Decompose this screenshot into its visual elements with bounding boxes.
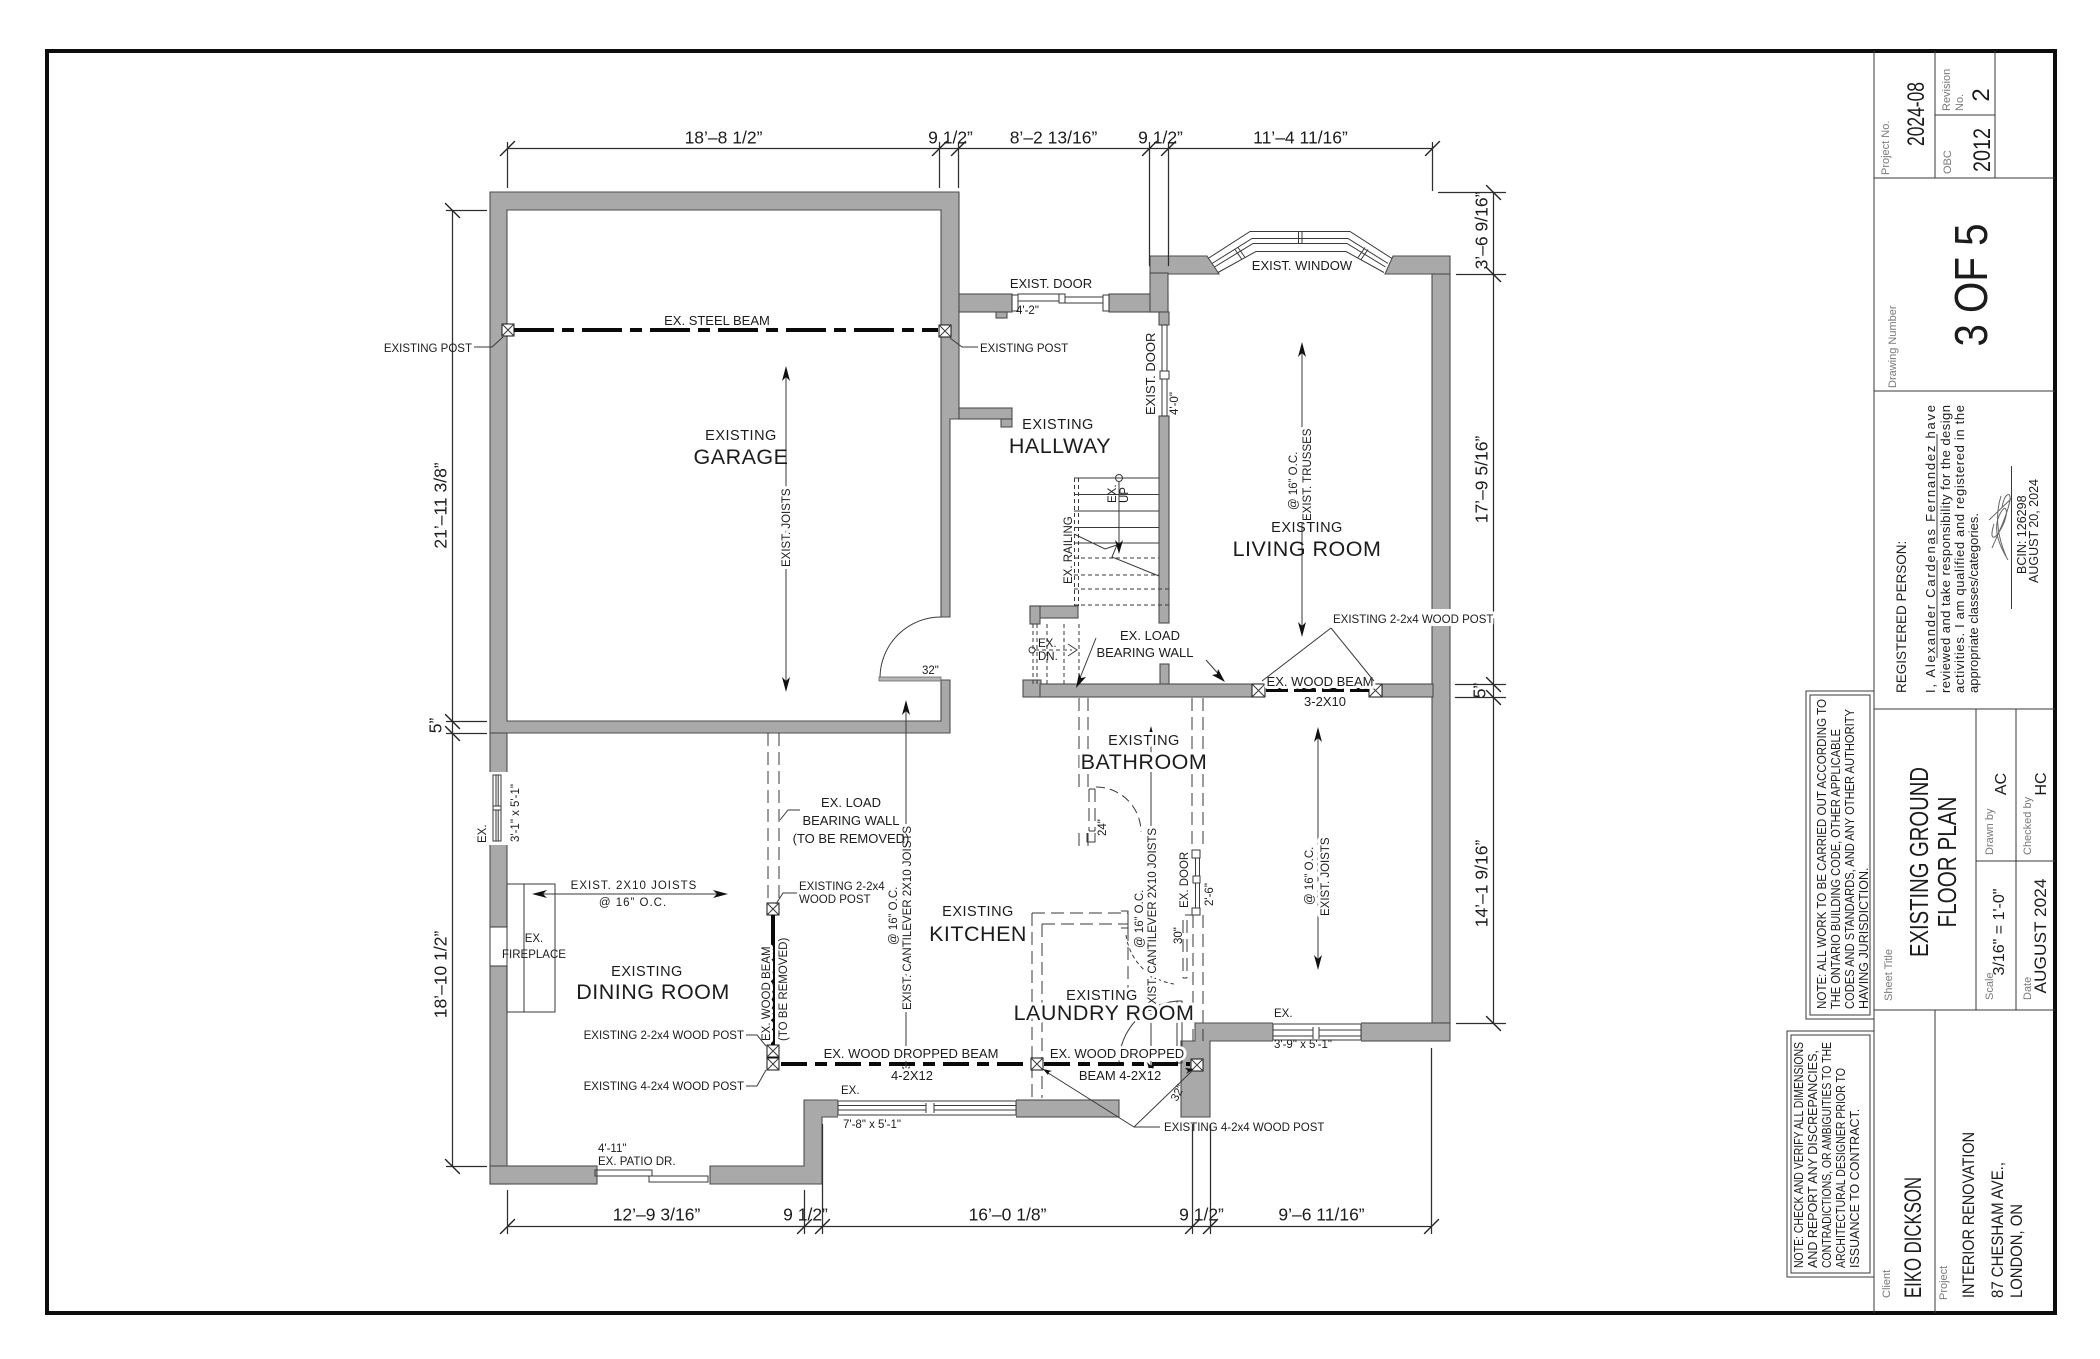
title block row line 4	[1874, 1009, 2055, 1011]
title block row line 1	[1874, 177, 2055, 179]
left dim ticks	[446, 204, 460, 1174]
DASHED	[768, 698, 1203, 1098]
svg-text:AC: AC	[1993, 773, 2010, 795]
note box 2 check and verify	[1787, 1031, 1874, 1277]
svg-text:EX. WOOD DROPPED: EX. WOOD DROPPED	[1050, 1046, 1184, 1061]
bay window line2	[1212, 239, 1388, 264]
svg-text:@ 16” O.C.: @ 16” O.C.	[888, 887, 900, 945]
svg-text:9 1/2”: 9 1/2”	[1138, 128, 1183, 148]
svg-text:EX. WOOD DROPPED BEAM: EX. WOOD DROPPED BEAM	[824, 1046, 999, 1061]
svg-text:7'-8" x 5'-1": 7'-8" x 5'-1"	[843, 1119, 901, 1131]
existing 4-2x4 wood post (laundry beam left)	[1031, 1058, 1043, 1070]
svg-text:AUGUST 20, 2024: AUGUST 20, 2024	[2027, 479, 2041, 583]
svg-text:11’–4 11/16”: 11’–4 11/16”	[1253, 128, 1348, 148]
window kitchen south 7'-8" x 5'-1"	[838, 1098, 1016, 1119]
DIMENSIONS	[426, 128, 1506, 1234]
svg-text:LIVING ROOM: LIVING ROOM	[1233, 537, 1382, 561]
svg-text:EXISTING 4-2x4 WOOD POST: EXISTING 4-2x4 WOOD POST	[584, 1081, 744, 1093]
right dim extension lines	[1439, 193, 1506, 1024]
svg-text:CODES AND STANDARDS, AND ANY O: CODES AND STANDARDS, AND ANY OTHER AUTHO…	[1843, 708, 1857, 1009]
wall family south right	[1361, 1023, 1450, 1041]
title block left edge	[1873, 51, 1875, 1313]
svg-text:NOTE: ALL WORK TO BE CARRIED O: NOTE: ALL WORK TO BE CARRIED OUT ACCORDI…	[1815, 699, 1829, 1009]
title block divider project no	[1934, 51, 1936, 178]
EX DN arrow dashed	[1029, 644, 1077, 656]
svg-text:@ 16” O.C.: @ 16” O.C.	[1134, 890, 1146, 948]
svg-text:ISSUANCE TO CONTRACT.: ISSUANCE TO CONTRACT.	[1848, 1109, 1862, 1268]
svg-text:EXISTING POST: EXISTING POST	[980, 343, 1068, 355]
TITLEBLOCK	[1787, 51, 2055, 1313]
svg-text:3'-1" x 5'-1": 3'-1" x 5'-1"	[510, 784, 522, 842]
svg-text:18’–10 1/2”: 18’–10 1/2”	[431, 931, 451, 1019]
bottom dim extension lines	[508, 1049, 1432, 1234]
svg-text:OBC: OBC	[1942, 150, 1954, 174]
svg-text:LONDON, ON: LONDON, ON	[2007, 1204, 2026, 1298]
bay window outer line	[1208, 232, 1392, 259]
svg-text:Drawing Number: Drawing Number	[1887, 305, 1899, 388]
svg-text:3'-9" x 5'-1": 3'-9" x 5'-1"	[1274, 1039, 1332, 1051]
svg-text:@ 16” O.C.: @ 16” O.C.	[1288, 452, 1300, 510]
fireplace box	[507, 884, 555, 1012]
svg-text:EXISTING 2-2x4 WOOD POST: EXISTING 2-2x4 WOOD POST	[584, 1030, 744, 1042]
svg-text:EXIST. CANTILEVER 2X10 JOIS: EXIST. CANTILEVER 2X10 JOISTS	[1147, 828, 1159, 1012]
bathroom-hall door 2'-6"	[1192, 850, 1200, 915]
svg-text:appropriate classes/categories: appropriate classes/categories.	[1966, 513, 1981, 693]
existing 2-2x4 wood post (top of removed beam)	[767, 903, 779, 915]
svg-text:3 OF 5: 3 OF 5	[1945, 224, 1997, 347]
svg-text:EXISTING: EXISTING	[942, 904, 1014, 920]
bay window line3	[1215, 244, 1386, 268]
svg-text:9 1/2”: 9 1/2”	[1179, 1205, 1224, 1225]
wall stair DN stub	[1030, 606, 1078, 618]
wall hallway east low	[1160, 664, 1169, 687]
svg-text:(TO BE REMOVED): (TO BE REMOVED)	[793, 831, 910, 846]
svg-text:14’–1 9/16”: 14’–1 9/16”	[1472, 840, 1492, 928]
bathroom west dashed wall upper	[1078, 698, 1080, 787]
svg-text:EX. PATIO DR.: EX. PATIO DR.	[598, 1156, 676, 1168]
svg-text:Drawn by: Drawn by	[1984, 808, 1996, 855]
STAIRS	[1029, 475, 1169, 685]
svg-text:activities. I am qualified and: activities. I am qualified and registere…	[1952, 405, 1967, 693]
right dim ticks	[1487, 186, 1501, 1031]
svg-text:EXIST. JOISTS: EXIST. JOISTS	[781, 488, 793, 567]
title block row line 2	[1874, 390, 2055, 392]
svg-text:HC: HC	[2033, 772, 2050, 795]
svg-text:EX. STEEL BEAM: EX. STEEL BEAM	[664, 313, 770, 328]
svg-text:3’–6 9/16”: 3’–6 9/16”	[1472, 191, 1492, 269]
bathroom east dashed wall	[1191, 698, 1193, 850]
laundry opening trim	[1121, 911, 1128, 928]
svg-text:DINING ROOM: DINING ROOM	[576, 980, 730, 1004]
svg-text:LAUNDRY ROOM: LAUNDRY ROOM	[1014, 1001, 1195, 1025]
wall living-family east	[1432, 274, 1450, 1023]
svg-text:9 1/2”: 9 1/2”	[928, 128, 973, 148]
svg-text:Sheet Title: Sheet Title	[1883, 949, 1895, 1001]
top dim ticks	[501, 142, 1440, 156]
svg-text:EXISTING: EXISTING	[1022, 417, 1094, 433]
svg-text:Project: Project	[1938, 1266, 1950, 1300]
svg-text:3-2X10: 3-2X10	[1304, 694, 1346, 709]
svg-text:EXISTING: EXISTING	[1271, 520, 1343, 536]
svg-text:EXIST. DOOR: EXIST. DOOR	[1143, 333, 1158, 415]
svg-text:WOOD POST: WOOD POST	[799, 894, 871, 906]
left dimension line	[452, 211, 454, 1167]
family joists arrow	[1314, 727, 1322, 970]
svg-text:16’–0 1/8”: 16’–0 1/8”	[969, 1205, 1047, 1225]
ex wood dropped beam 4-2x12 (laundry)	[1044, 1062, 1190, 1066]
hallway-living door 4'-0"	[1160, 325, 1169, 416]
svg-text:EX.: EX.	[525, 933, 544, 945]
svg-text:4'-2": 4'-2"	[1016, 305, 1039, 317]
wall living top east segment with bay cut	[1385, 256, 1450, 274]
svg-text:INTERIOR RENOVATION: INTERIOR RENOVATION	[1959, 1132, 1978, 1298]
svg-text:CONTRADICTIONS, OR AMBIGUITIES: CONTRADICTIONS, OR AMBIGUITIES TO THE	[1820, 1042, 1834, 1268]
svg-text:4'-0": 4'-0"	[1169, 392, 1181, 415]
svg-text:30": 30"	[1173, 927, 1185, 944]
window family south 3'-9" x 5'-1"	[1273, 1021, 1361, 1043]
wall stair DN stub cap	[1030, 606, 1040, 624]
BEAMS	[502, 324, 1382, 1071]
wall middle divider right	[1382, 684, 1433, 697]
svg-text:EXISTING: EXISTING	[705, 428, 777, 444]
svg-text:HAVING JURISDICTION.: HAVING JURISDICTION.	[1857, 868, 1871, 1009]
svg-text:32": 32"	[922, 665, 939, 677]
svg-text:17’–9 5/16”: 17’–9 5/16”	[1472, 436, 1492, 524]
svg-text:GARAGE: GARAGE	[694, 445, 789, 469]
wall dining west	[490, 733, 507, 1184]
existing 4-2x4 wood post (laundry beam right)	[1191, 1059, 1203, 1071]
ARROWS	[532, 342, 1332, 1081]
existing steel beam garage	[514, 328, 938, 332]
top dim extension lines	[508, 143, 1433, 266]
WINDOWS	[489, 232, 1392, 1120]
window dining west 3'-1" x 5'-1"	[489, 772, 508, 845]
fireplace recess in wall	[489, 927, 508, 966]
svg-text:Project No.: Project No.	[1880, 121, 1892, 175]
bottom dimension line	[508, 1226, 1432, 1228]
bay window center mullion	[1298, 232, 1300, 244]
svg-text:@ 16” O.C.: @ 16” O.C.	[1304, 847, 1316, 905]
svg-text:Client: Client	[1881, 1270, 1893, 1298]
svg-text:9 1/2”: 9 1/2”	[783, 1205, 828, 1225]
wall hallway east upper stub	[1159, 312, 1169, 325]
ex wood beam 3-2x10 living	[1266, 688, 1369, 692]
svg-text:3/16" = 1'-0": 3/16" = 1'-0"	[1991, 889, 2008, 976]
svg-text:ARCHITECTURAL DESIGNER PRIOR T: ARCHITECTURAL DESIGNER PRIOR TO	[1834, 1068, 1848, 1268]
title block divider sheettitle/scale	[1975, 709, 1977, 1010]
svg-text:BATHROOM: BATHROOM	[1081, 750, 1208, 774]
bathroom cantilever arrow	[1147, 726, 1155, 1077]
ex wood beam to be removed (vertical)	[771, 915, 775, 1045]
svg-text:DN.: DN.	[1038, 651, 1058, 663]
garage joists arrow	[782, 366, 790, 692]
ex wood dropped beam 4-2x12 (kitchen)	[781, 1062, 1030, 1066]
underline alexander	[1936, 560, 1938, 658]
svg-text:AUGUST 2024: AUGUST 2024	[2031, 879, 2050, 994]
bathroom door jamb cap	[1087, 833, 1095, 842]
svg-text:EXIST. WINDOW: EXIST. WINDOW	[1252, 258, 1353, 273]
svg-text:EX.: EX.	[841, 1085, 860, 1097]
stair break line	[1074, 534, 1159, 576]
svg-text:EXIST. 2X10 JOISTS: EXIST. 2X10 JOISTS	[571, 880, 698, 892]
laundry exterior door 32" leaf	[1177, 1001, 1182, 1063]
svg-text:EX.: EX.	[1038, 638, 1057, 650]
stair UP treads	[1074, 478, 1169, 605]
existing post left (steel beam)	[502, 324, 514, 336]
svg-text:HALLWAY: HALLWAY	[1009, 434, 1111, 458]
existing 2-2x4 wood post left (living beam)	[1252, 684, 1265, 697]
bottom dim ticks	[501, 1220, 1439, 1234]
svg-text:BEARING WALL: BEARING WALL	[802, 813, 899, 828]
wall dining south left	[490, 1166, 597, 1184]
laundry closet dashed outline	[1032, 912, 1128, 914]
bathroom door 24" swing arc	[1096, 787, 1141, 832]
patio door dining	[595, 1170, 708, 1182]
svg-text:@ 16” O.C.: @ 16” O.C.	[599, 897, 667, 909]
existing 2-2x4 wood post right (living beam)	[1369, 684, 1382, 697]
svg-text:8’–2 13/16”: 8’–2 13/16”	[1010, 128, 1098, 148]
wall hallway east mid	[1159, 416, 1169, 623]
signature scribble	[1989, 494, 2012, 560]
svg-text:EXIST. TRUSSES: EXIST. TRUSSES	[1302, 428, 1314, 521]
svg-text:12’–9 3/16”: 12’–9 3/16”	[613, 1205, 701, 1225]
wall hallway closet stub	[959, 408, 1012, 419]
svg-text:reviewed and take responsibili: reviewed and take responsibility for the…	[1938, 405, 1953, 693]
svg-text:EXISTING: EXISTING	[1108, 733, 1180, 749]
svg-text:(TO BE REMOVED): (TO BE REMOVED)	[778, 938, 790, 1041]
svg-text:Revision: Revision	[1941, 69, 1953, 111]
svg-text:EX.: EX.	[1107, 484, 1119, 503]
svg-text:EX. DOOR: EX. DOOR	[1179, 852, 1191, 908]
kitchen cantilever arrow	[902, 700, 910, 1081]
EX UP arrow	[1115, 475, 1123, 555]
svg-text:EX. LOAD: EX. LOAD	[821, 795, 881, 810]
signature line	[2011, 466, 2013, 609]
svg-text:EIKO DICKSON: EIKO DICKSON	[1900, 1177, 1927, 1298]
bay window right mullion	[1358, 248, 1365, 258]
living trusses arrow	[1298, 342, 1306, 637]
existing 4-2x4 wood post (bottom)	[767, 1058, 779, 1070]
svg-text:5”: 5”	[426, 718, 446, 734]
svg-text:2012: 2012	[1969, 128, 1996, 172]
svg-text:EXISTING 2-2x4 WOOD POST: EXISTING 2-2x4 WOOD POST	[1333, 614, 1493, 626]
svg-text:No.: No.	[1954, 94, 1966, 111]
laundry 30" door dashed swing arc	[1126, 935, 1174, 984]
svg-text:Scale: Scale	[1984, 972, 1996, 1000]
garage-hallway door 32" leaf	[879, 677, 941, 681]
wall hallway east upper	[1150, 273, 1168, 312]
svg-text:9’–6 11/16”: 9’–6 11/16”	[1278, 1205, 1364, 1225]
svg-text:EXISTING 4-2x4 WOOD POST: EXISTING 4-2x4 WOOD POST	[1164, 1122, 1324, 1134]
wall hallway closet stub cap	[1001, 419, 1012, 427]
laundry exterior door 32" swing arc	[1119, 1001, 1181, 1063]
DOORS	[595, 294, 1200, 1182]
svg-text:EX. WOOD BEAM: EX. WOOD BEAM	[761, 946, 773, 1041]
svg-text:EXIST. JOISTS: EXIST. JOISTS	[1320, 837, 1332, 916]
garage-hallway door 32" swing arc	[880, 617, 941, 677]
title block divider client/project	[1934, 1010, 1936, 1313]
wall gap for post label	[1429, 609, 1453, 626]
svg-text:REGISTERED PERSON:: REGISTERED PERSON:	[1894, 541, 1909, 693]
existing 2-2x4 wood post (bottom)	[767, 1045, 779, 1057]
svg-text:NOTE: CHECK AND VERIFY ALL DIM: NOTE: CHECK AND VERIFY ALL DIMENSIONS	[1792, 1042, 1806, 1268]
wall garage perimeter	[490, 192, 959, 733]
svg-text:THE ONTARIO BUILDING CODE, OTH: THE ONTARIO BUILDING CODE, OTHER APPLICA…	[1829, 729, 1843, 1009]
front entry door 4'-2"	[1012, 294, 1109, 311]
svg-text:Checked by: Checked by	[2022, 796, 2034, 855]
svg-text:EX. RAILING: EX. RAILING	[1063, 516, 1075, 584]
bay window inner line	[1218, 252, 1384, 273]
stair railing dashed	[1075, 478, 1079, 606]
svg-text:EXISTING 2-2x4: EXISTING 2-2x4	[799, 881, 885, 893]
title block divider obc col	[1994, 51, 1996, 178]
stair DN dashed treads	[1033, 624, 1079, 684]
bathroom west dashed wall below door	[1078, 833, 1080, 847]
wall living top west segment with bay cut	[1150, 256, 1219, 274]
svg-text:EX.: EX.	[477, 824, 489, 843]
svg-text:2: 2	[1968, 88, 1995, 101]
svg-text:18’–8 1/2”: 18’–8 1/2”	[685, 128, 763, 148]
load bearing wall to be removed (dining-kitchen)	[767, 733, 769, 903]
wall entry south right	[1109, 294, 1168, 312]
wall kitchen south right	[1016, 1100, 1119, 1117]
left dim extension lines	[447, 211, 487, 1167]
wall middle divider cap	[1023, 680, 1041, 697]
dining joists double arrow	[532, 890, 728, 898]
svg-text:FIREPLACE: FIREPLACE	[502, 949, 566, 961]
svg-text:2'-6": 2'-6"	[1204, 883, 1216, 906]
bay window living room	[1208, 232, 1392, 273]
note box 1 all work	[1806, 691, 1874, 1019]
svg-text:EX.: EX.	[1274, 1008, 1293, 1020]
svg-text:EXISTING POST: EXISTING POST	[384, 343, 472, 355]
svg-text:EXIST. DOOR: EXIST. DOOR	[1010, 276, 1092, 291]
title block divider drawnby/scale row	[1976, 860, 2055, 862]
svg-text:FLOOR PLAN: FLOOR PLAN	[1932, 797, 1962, 928]
top dimension line	[508, 148, 1433, 150]
bathroom door 24" leaf	[1089, 789, 1095, 831]
title block divider scale/date col	[2015, 709, 2017, 1010]
laundry 30" door dashed leaf	[1183, 915, 1193, 978]
svg-text:EX. LOAD: EX. LOAD	[1120, 628, 1180, 643]
svg-text:BEAM 4-2X12: BEAM 4-2X12	[1079, 1068, 1161, 1083]
svg-text:UP: UP	[1119, 487, 1131, 503]
wall dining south right + dining east vertical + kitchen south left	[710, 1100, 838, 1184]
svg-text:BEARING WALL: BEARING WALL	[1096, 645, 1193, 660]
bathroom east dashed wall lower	[1192, 915, 1194, 1041]
svg-text:EXISTING: EXISTING	[611, 964, 683, 980]
existing post right (steel beam)	[939, 325, 951, 337]
svg-text:24": 24"	[1097, 819, 1109, 836]
svg-text:EX. WOOD BEAM: EX. WOOD BEAM	[1267, 674, 1374, 689]
title block row line 3	[1874, 708, 2055, 710]
wall entry notch	[996, 312, 1007, 318]
wall middle divider left	[1040, 684, 1253, 697]
svg-text:I, Alexander Cardenas Ferna: I, Alexander Cardenas Fernandez have	[1923, 405, 1938, 693]
wall laundry east + family south left	[1181, 1023, 1273, 1117]
svg-text:KITCHEN: KITCHEN	[929, 922, 1027, 946]
svg-text:AND REPORT ANY DISCREPANCIES,: AND REPORT ANY DISCREPANCIES,	[1806, 1050, 1820, 1268]
svg-text:EXISTING GROUND: EXISTING GROUND	[1904, 767, 1934, 957]
svg-text:EXIST. CANTILEVER 2X10 JOIS: EXIST. CANTILEVER 2X10 JOISTS	[902, 826, 914, 1010]
right dimension line	[1493, 193, 1495, 1024]
svg-text:5”: 5”	[1470, 683, 1490, 699]
svg-text:4'-11": 4'-11"	[598, 1143, 626, 1155]
WALLS	[490, 192, 1453, 1184]
svg-text:87 CHESHAM AVE.,: 87 CHESHAM AVE.,	[1988, 1162, 2007, 1298]
svg-text:2024-08: 2024-08	[1903, 82, 1930, 146]
bay window left mullion	[1235, 250, 1242, 260]
wall entry south left	[959, 294, 1012, 312]
svg-text:21’–11 3/8”: 21’–11 3/8”	[431, 462, 451, 548]
title block divider obc/revision	[1935, 114, 1995, 116]
svg-text:4-2X12: 4-2X12	[891, 1068, 933, 1083]
